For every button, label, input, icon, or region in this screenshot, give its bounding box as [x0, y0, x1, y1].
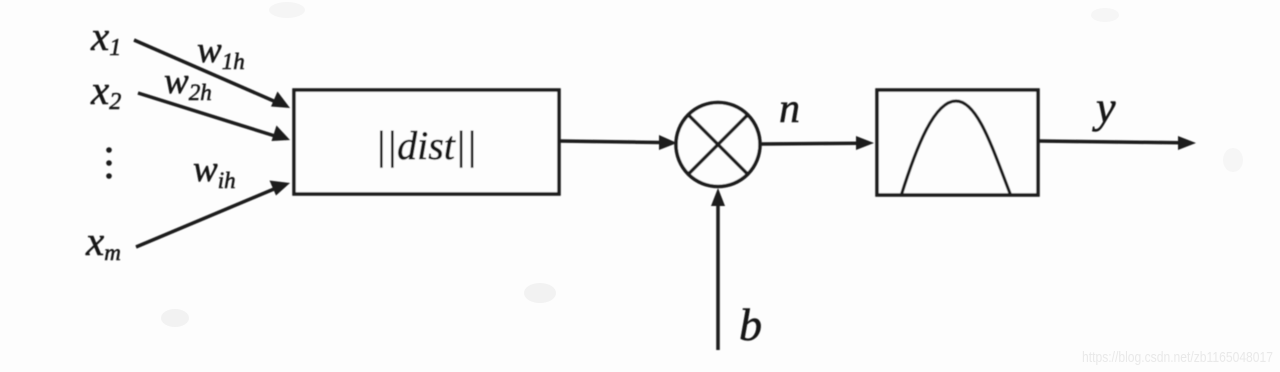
wire multiplier to transfer box: [759, 136, 874, 150]
dist box: [294, 90, 559, 194]
wire input arrow 1: [134, 40, 290, 108]
multiplier cross: [689, 116, 747, 174]
svg-text:https://blog.csdn.net/zb116504: https://blog.csdn.net/zb1165048017: [1082, 349, 1273, 366]
gaussian curve: [901, 101, 1011, 196]
bias wire (vertical): [711, 188, 725, 350]
transfer function box: [877, 90, 1038, 195]
multiplier circle: [676, 103, 760, 187]
svg-text:y: y: [1092, 83, 1116, 132]
wire dist to multiplier: [559, 135, 677, 150]
wire input arrow 2: [138, 93, 290, 141]
svg-text:n: n: [779, 86, 800, 132]
wire output arrow: [1038, 136, 1196, 150]
vertical ellipsis dots: [106, 147, 112, 179]
wire input arrow 3: [136, 181, 290, 248]
svg-text:||dist||: ||dist||: [375, 123, 477, 168]
svg-text:b: b: [739, 299, 762, 350]
